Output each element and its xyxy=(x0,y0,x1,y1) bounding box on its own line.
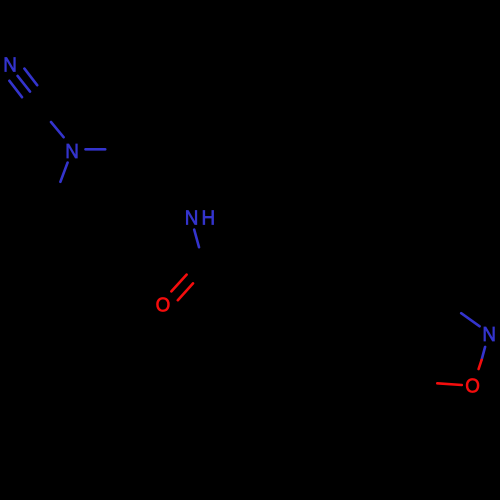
svg-text:N: N xyxy=(185,207,199,230)
svg-text:O: O xyxy=(156,294,171,317)
svg-text:N: N xyxy=(482,323,496,346)
svg-text:H: H xyxy=(201,207,215,230)
svg-text:O: O xyxy=(465,375,480,398)
svg-text:N: N xyxy=(3,54,17,77)
svg-text:N: N xyxy=(65,140,79,163)
